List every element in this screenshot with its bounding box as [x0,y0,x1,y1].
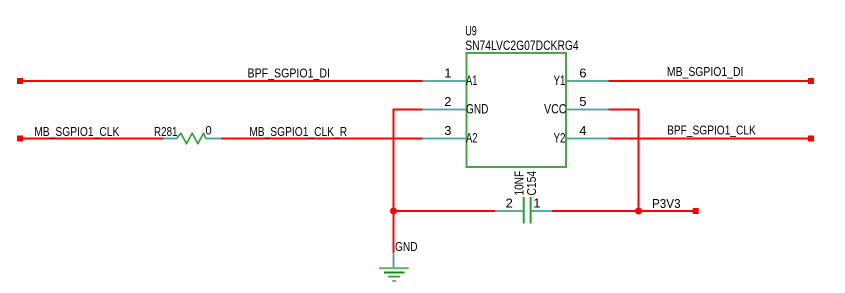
svg-text:A1: A1 [466,73,478,88]
svg-text:2: 2 [444,94,451,109]
svg-text:1: 1 [533,196,540,211]
svg-text:Y2: Y2 [554,131,566,146]
wire net MB_SGPIO1_CLK_R [221,138,423,140]
ground symbol [379,253,409,282]
svg-text:MB_SGPIO1_CLK_R: MB_SGPIO1_CLK_R [249,124,347,139]
svg-text:MB_SGPIO1_CLK: MB_SGPIO1_CLK [34,124,119,139]
wire VCC net horizontal from pin 5 [609,109,639,111]
wire P3V3 rail left segment [394,210,496,212]
wire net MB_SGPIO1_CLK [20,138,164,140]
svg-text:5: 5 [579,94,586,109]
svg-text:A2: A2 [466,131,478,146]
junction at GND node [390,208,397,215]
svg-text:Y1: Y1 [554,73,566,88]
svg-text:0: 0 [205,125,211,137]
pin 4 Y2 [554,123,609,146]
svg-text:R281: R281 [154,124,178,139]
svg-text:BPF_SGPIO1_DI: BPF_SGPIO1_DI [248,66,331,81]
svg-text:U9: U9 [465,23,477,38]
pin 6 Y1 [554,66,609,89]
svg-text:GND: GND [466,102,488,117]
svg-text:6: 6 [579,66,586,81]
port BPF_SGPIO1_DI left terminal [17,78,23,84]
svg-text:MB_SGPIO1_DI: MB_SGPIO1_DI [667,64,744,79]
capacitor C154 [495,197,552,224]
port MB_SGPIO1_DI right terminal [808,78,814,84]
svg-text:VCC: VCC [544,102,567,117]
wire VCC net vertical [638,109,640,212]
wire net BPF_SGPIO1_DI [20,80,423,82]
svg-text:3: 3 [444,123,451,138]
wire net BPF_SGPIO1_CLK [609,138,812,140]
resistor R281 [164,133,222,144]
pin 3 A2 [423,123,478,146]
svg-text:2: 2 [506,196,513,211]
port MB_SGPIO1_CLK left terminal [17,136,23,142]
wire GND net horizontal from pin 2 [394,109,423,111]
svg-text:1: 1 [444,66,451,81]
svg-text:4: 4 [579,123,586,138]
svg-text:SN74LVC2G07DCKRG4: SN74LVC2G07DCKRG4 [465,38,579,53]
junction at P3V3 node [635,208,642,215]
svg-text:BPF_SGPIO1_CLK: BPF_SGPIO1_CLK [667,122,756,137]
wire P3V3 rail right segment [552,210,696,212]
svg-text:C154: C154 [524,171,539,196]
svg-text:GND: GND [395,239,418,254]
svg-text:P3V3: P3V3 [652,196,681,211]
IC U9 body [467,53,567,167]
port BPF_SGPIO1_CLK right terminal [808,136,814,142]
pin 2 GND [423,94,489,117]
port P3V3 terminal [693,208,699,214]
pin 5 VCC [544,94,609,117]
wire GND net vertical [393,109,395,253]
pin 1 A1 [423,66,478,89]
wire net MB_SGPIO1_DI [609,80,812,82]
